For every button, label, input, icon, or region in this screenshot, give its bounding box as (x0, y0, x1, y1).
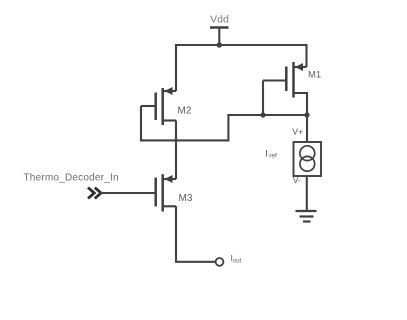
wire M2 gate loop (141, 106, 307, 140)
current source circles (300, 146, 315, 161)
svg-text:V+: V+ (292, 127, 303, 137)
svg-text:Iref: Iref (265, 149, 277, 160)
transistor M1 (263, 62, 307, 115)
node Iref top junction (304, 112, 309, 117)
svg-text:Iout: Iout (231, 253, 242, 265)
svg-text:M2: M2 (178, 106, 192, 117)
wire M1 gate drop (262, 81, 264, 116)
wire Vdd stem (218, 28, 220, 46)
ground (296, 211, 317, 222)
wire Iref bottom lead (306, 176, 308, 211)
wire Iref top lead (306, 115, 308, 142)
node crossing blob (174, 139, 177, 142)
wire M2 drain riser (175, 44, 177, 91)
input chevron (88, 188, 101, 199)
wire M2 drain to M3 drain (175, 121, 177, 180)
node Vdd junction (217, 42, 222, 47)
svg-text:V-: V- (293, 175, 301, 185)
terminal Iout circle (216, 258, 224, 266)
svg-text:Vdd: Vdd (210, 14, 229, 26)
Vdd supply bar (210, 26, 229, 29)
wire M1 drain riser (305, 44, 307, 67)
wire input to M3 gate (101, 192, 156, 194)
transistor M2 (141, 87, 176, 125)
svg-text:M1: M1 (308, 70, 321, 81)
wire M3 source drop (176, 206, 216, 261)
svg-text:M3: M3 (179, 193, 193, 204)
wire top rail (176, 44, 307, 46)
node gate net junction (260, 112, 265, 117)
current source Iref box (294, 142, 322, 176)
svg-text:Thermo_Decoder_In: Thermo_Decoder_In (24, 173, 119, 184)
transistor M3 (156, 174, 176, 211)
